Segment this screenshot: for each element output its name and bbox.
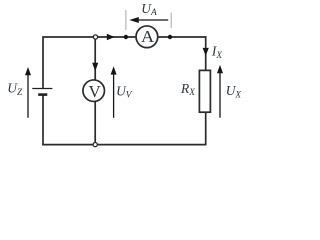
- wire voltmeter stem upper: [94, 37, 96, 80]
- wire right vertical lower: [205, 112, 207, 145]
- svg-text:IX: IX: [211, 43, 222, 60]
- arrow into voltmeter: [92, 63, 98, 72]
- U_Z measurement arrow: [25, 67, 31, 118]
- svg-text:A: A: [141, 27, 155, 46]
- junction dot left of ammeter: [124, 35, 128, 39]
- wire voltmeter stem lower: [94, 102, 96, 145]
- node A (top junction, open): [93, 35, 97, 39]
- U_A measurement arrow: [129, 17, 168, 23]
- node B (bottom junction, open): [93, 143, 97, 147]
- wire top-left horizontal: [43, 36, 135, 38]
- wire bottom horizontal: [42, 144, 206, 146]
- U_X measurement arrow: [217, 65, 223, 118]
- wire left vertical upper: [42, 36, 44, 88]
- resistor R_X body: [199, 70, 210, 112]
- svg-text:RX: RX: [180, 81, 195, 98]
- U_A measurement tick right: [170, 13, 172, 29]
- wire right vertical upper: [205, 36, 207, 70]
- battery U_Z short plate: [38, 93, 47, 96]
- svg-text:V: V: [89, 82, 102, 101]
- wire left vertical lower: [42, 95, 44, 145]
- current arrow on top wire: [107, 34, 115, 40]
- voltmeter U2 circle: [83, 80, 105, 102]
- svg-text:UZ: UZ: [7, 81, 23, 99]
- svg-text:UX: UX: [226, 83, 242, 100]
- ammeter U1 circle: [136, 26, 158, 48]
- junction dot right of ammeter: [168, 35, 172, 39]
- svg-text:UA: UA: [141, 1, 157, 18]
- svg-text:UV: UV: [116, 84, 133, 101]
- current arrow I_X arrowhead: [203, 48, 209, 56]
- U_A measurement tick left: [125, 10, 127, 30]
- wire top-right horizontal: [158, 36, 206, 38]
- U_V measurement arrow: [111, 66, 117, 118]
- battery U_Z long plate: [32, 88, 52, 90]
